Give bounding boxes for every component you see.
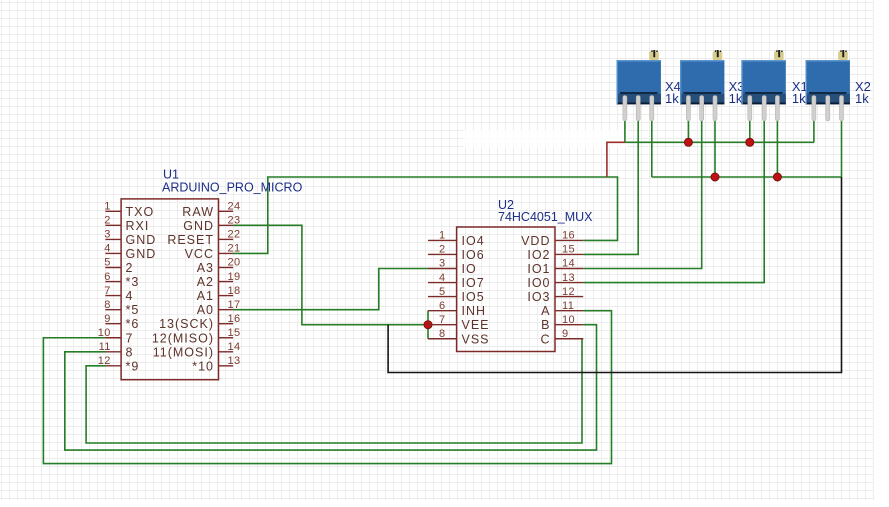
svg-text:GND: GND	[183, 219, 214, 233]
svg-text:3: 3	[104, 229, 111, 241]
svg-text:14: 14	[228, 341, 241, 353]
svg-text:IO: IO	[462, 262, 477, 276]
svg-text:13: 13	[228, 355, 241, 367]
svg-text:GND: GND	[126, 233, 157, 247]
svg-text:VCC: VCC	[185, 247, 214, 261]
svg-text:11(MOSI): 11(MOSI)	[153, 345, 214, 359]
svg-text:8: 8	[104, 299, 111, 311]
svg-text:RAW: RAW	[182, 205, 214, 219]
svg-text:IO4: IO4	[462, 234, 485, 248]
svg-text:4: 4	[439, 272, 446, 284]
svg-text:VEE: VEE	[462, 318, 490, 332]
svg-text:*10: *10	[192, 359, 214, 373]
svg-text:17: 17	[228, 299, 241, 311]
svg-text:RXI: RXI	[126, 219, 150, 233]
svg-text:11: 11	[562, 300, 574, 312]
svg-text:1: 1	[439, 230, 446, 242]
svg-text:11: 11	[99, 341, 111, 353]
svg-text:A: A	[541, 304, 550, 318]
svg-text:6: 6	[104, 271, 111, 283]
svg-text:4: 4	[126, 289, 134, 303]
svg-text:A3: A3	[197, 261, 214, 275]
svg-text:23: 23	[228, 215, 241, 227]
svg-text:13(SCK): 13(SCK)	[159, 317, 214, 331]
svg-text:2: 2	[104, 215, 111, 227]
svg-text:7: 7	[104, 285, 111, 297]
svg-text:IO7: IO7	[462, 276, 485, 290]
svg-text:1: 1	[104, 201, 111, 213]
svg-text:VSS: VSS	[462, 332, 490, 346]
svg-text:10: 10	[562, 314, 575, 326]
svg-text:IO6: IO6	[462, 248, 485, 262]
svg-text:ARDUINO_PRO_MICRO: ARDUINO_PRO_MICRO	[162, 181, 303, 195]
svg-text:2: 2	[126, 261, 134, 275]
svg-text:6: 6	[439, 300, 446, 312]
svg-text:9: 9	[562, 328, 569, 340]
svg-text:1k: 1k	[729, 91, 743, 106]
svg-text:10: 10	[98, 327, 111, 339]
svg-text:19: 19	[228, 271, 241, 283]
svg-text:INH: INH	[462, 304, 487, 318]
svg-text:IO5: IO5	[462, 290, 485, 304]
svg-text:15: 15	[228, 327, 241, 339]
svg-text:12(MISO): 12(MISO)	[152, 331, 214, 345]
svg-text:5: 5	[439, 286, 446, 298]
svg-text:16: 16	[562, 230, 575, 242]
svg-text:5: 5	[104, 257, 111, 269]
svg-text:7: 7	[126, 331, 134, 345]
svg-text:1k: 1k	[665, 91, 679, 106]
svg-text:20: 20	[228, 257, 241, 269]
svg-text:IO1: IO1	[527, 262, 550, 276]
svg-text:18: 18	[228, 285, 241, 297]
svg-text:24: 24	[228, 201, 241, 213]
svg-text:*3: *3	[126, 275, 140, 289]
svg-text:*6: *6	[126, 317, 140, 331]
svg-text:1k: 1k	[792, 91, 806, 106]
svg-text:A0: A0	[197, 303, 214, 317]
svg-text:TXO: TXO	[126, 205, 155, 219]
svg-text:1k: 1k	[855, 91, 869, 106]
svg-text:A1: A1	[197, 289, 214, 303]
svg-text:21: 21	[228, 243, 241, 255]
svg-text:C: C	[540, 332, 550, 346]
svg-text:IO0: IO0	[527, 276, 550, 290]
svg-text:14: 14	[562, 258, 575, 270]
svg-text:*5: *5	[126, 303, 140, 317]
svg-text:74HC4051_MUX: 74HC4051_MUX	[498, 210, 593, 224]
svg-text:8: 8	[439, 328, 446, 340]
svg-text:15: 15	[562, 244, 575, 256]
svg-text:RESET: RESET	[167, 233, 214, 247]
svg-text:16: 16	[228, 313, 241, 325]
svg-text:*9: *9	[126, 359, 140, 373]
svg-text:7: 7	[439, 314, 446, 326]
svg-text:9: 9	[104, 313, 111, 325]
svg-text:12: 12	[562, 286, 575, 298]
svg-text:A2: A2	[197, 275, 214, 289]
svg-text:B: B	[541, 318, 550, 332]
svg-text:13: 13	[562, 272, 575, 284]
svg-text:IO3: IO3	[527, 290, 550, 304]
svg-text:GND: GND	[126, 247, 157, 261]
svg-text:8: 8	[126, 345, 134, 359]
svg-text:3: 3	[439, 258, 446, 270]
svg-text:IO2: IO2	[527, 248, 550, 262]
svg-text:22: 22	[228, 229, 241, 241]
svg-text:2: 2	[439, 244, 446, 256]
svg-text:4: 4	[104, 243, 111, 255]
svg-text:VDD: VDD	[521, 234, 550, 248]
svg-text:U1: U1	[163, 168, 179, 182]
svg-text:12: 12	[98, 355, 111, 367]
